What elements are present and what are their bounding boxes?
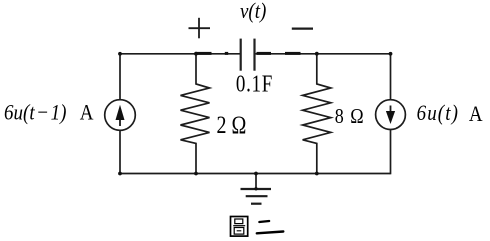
wire thick overlap segment c (257, 52, 272, 55)
caption glyph TU (figure) outer box (231, 217, 248, 237)
label v(t) (240, 0, 267, 23)
caption glyph ER (two) strokes (257, 221, 284, 233)
svg-text:2 Ω: 2 Ω (217, 111, 247, 139)
junction dot node 8ohm top (315, 52, 319, 56)
wire bottom (120, 173, 391, 175)
minus polarity mark (292, 28, 313, 30)
label 2 ohm (217, 111, 247, 139)
svg-text:0.1F: 0.1F (236, 69, 273, 97)
plus polarity mark (189, 18, 211, 39)
wire thick overlap segment d (285, 52, 301, 55)
current source I2 down arrow (386, 106, 395, 125)
resistor R2 8ohm zigzag (303, 54, 331, 174)
junction dot node 8ohm bottom (315, 172, 319, 176)
ground stub wire (255, 174, 257, 190)
ground bar 3 (251, 203, 262, 205)
current source I2 circle (376, 100, 406, 130)
ground bar 2 (246, 195, 268, 197)
svg-text:A: A (80, 101, 94, 124)
junction dot top-right corner (389, 52, 393, 56)
svg-text:8 Ω: 8 Ω (335, 105, 365, 129)
wire right branch upper (390, 53, 392, 100)
current source I1 up arrow (116, 105, 125, 126)
label 6u(t) (417, 102, 459, 125)
wire left branch upper (119, 53, 121, 100)
label 0.1F (236, 69, 273, 97)
label 6u(t-1) (4, 101, 67, 124)
svg-text:6u(t − 1): 6u(t − 1) (4, 101, 67, 124)
resistor R1 2ohm zigzag (181, 54, 210, 174)
junction dot top-left corner (118, 52, 122, 56)
ground bar 1 (241, 188, 272, 190)
label A left (80, 101, 94, 124)
junction dot node 2ohm top (194, 52, 198, 56)
label 8 ohm (335, 105, 365, 129)
svg-text:v(t): v(t) (240, 0, 267, 23)
current source I1 circle (105, 100, 136, 131)
wire thick overlap segment a (196, 52, 212, 55)
junction dot ground bar (254, 187, 257, 190)
svg-text:A: A (469, 103, 483, 126)
wire top-right segment (255, 53, 391, 55)
junction dot node 2ohm bottom (194, 172, 198, 176)
capacitor C1 left plate (240, 39, 242, 71)
wire left branch lower (119, 130, 121, 174)
junction dot bottom-left corner (118, 172, 122, 176)
svg-text:6u(t): 6u(t) (417, 102, 459, 125)
wire right branch lower (390, 130, 392, 175)
capacitor C1 right plate (253, 39, 255, 71)
junction dot ground node (254, 172, 258, 176)
wire top-left segment (120, 53, 241, 55)
label A right (469, 103, 483, 126)
wire thick overlap segment b (225, 52, 228, 55)
